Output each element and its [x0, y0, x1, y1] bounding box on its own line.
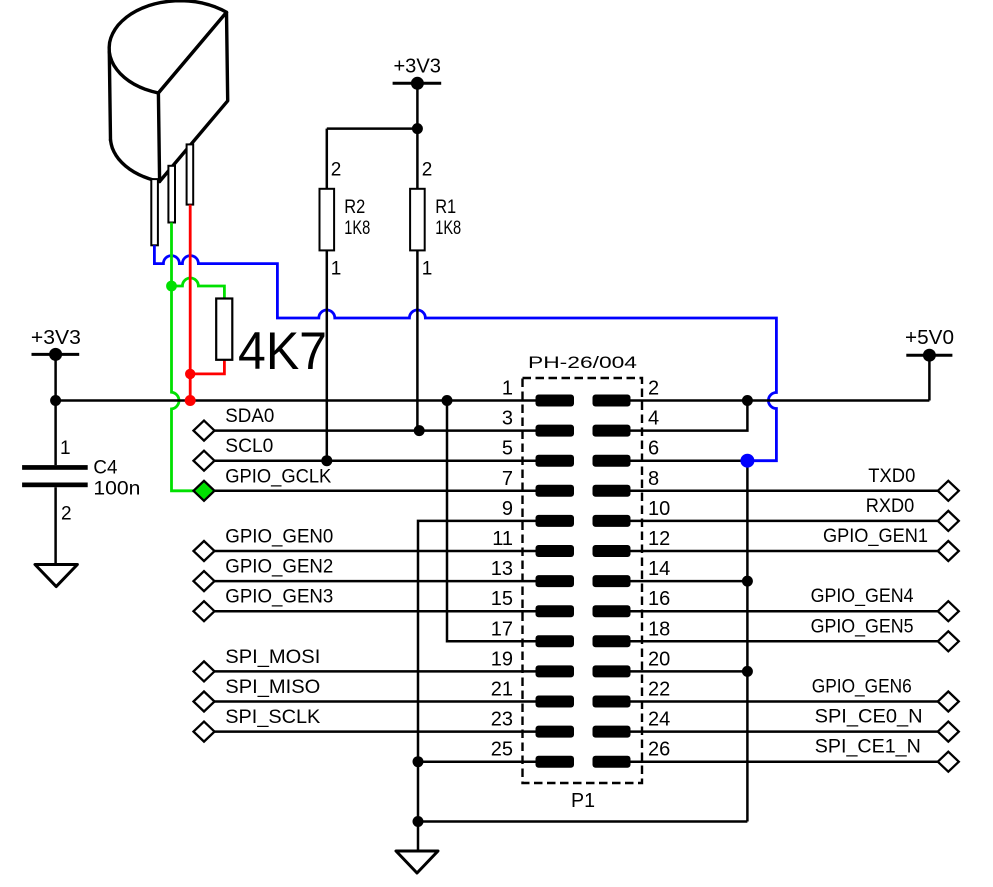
sensor leg 1 (left pin)	[151, 179, 158, 245]
wire SPI_MOSI net to connector pin 19	[215, 670, 536, 673]
wire GPIO_GEN3 net to connector pin 15	[215, 610, 536, 613]
svg-text:GPIO_GEN4: GPIO_GEN4	[811, 586, 914, 607]
node SPI_MISO (off-page diamond)	[194, 692, 215, 712]
wire connector pin 4 up to 5V net	[631, 401, 748, 431]
svg-text:1: 1	[422, 258, 433, 279]
connector pad pin 12	[593, 545, 631, 557]
svg-text:GPIO_GEN0: GPIO_GEN0	[225, 527, 333, 548]
svg-text:GPIO_GEN3: GPIO_GEN3	[225, 587, 333, 608]
power symbol +3V3 (left)	[32, 353, 80, 356]
svg-text:GPIO_GEN1: GPIO_GEN1	[823, 526, 928, 547]
junction red wire / 4K7 branch	[185, 369, 195, 379]
junction GND / pin 25	[413, 756, 424, 767]
connector pad pin 1	[536, 395, 575, 407]
svg-text:+3V3: +3V3	[31, 326, 81, 349]
svg-text:1: 1	[60, 438, 71, 459]
svg-text:25: 25	[491, 739, 513, 761]
node SCL0 (off-page diamond)	[194, 451, 215, 471]
svg-text:23: 23	[491, 709, 513, 731]
svg-text:16: 16	[648, 588, 670, 610]
svg-text:24: 24	[648, 709, 670, 731]
wire blue GND net (sensor pin1 to connector pin 6, hops over green/red/R2/R1/pin2 wires)	[154, 245, 776, 460]
svg-text:R2: R2	[344, 197, 365, 218]
svg-text:3: 3	[502, 408, 513, 430]
svg-text:2: 2	[331, 159, 342, 180]
node GPIO_GEN6 (off-page diamond)	[938, 692, 959, 712]
wire +3V3 left symbol down to C4 pin 1	[54, 354, 57, 465]
wire SCL0 net to connector pin 5	[215, 459, 536, 462]
node GPIO_GEN4 (off-page diamond)	[938, 601, 959, 621]
svg-text:P1: P1	[571, 789, 595, 812]
svg-text:GPIO_GEN5: GPIO_GEN5	[811, 616, 914, 637]
svg-text:1K8: 1K8	[435, 218, 461, 239]
connector pad pin 2	[593, 395, 631, 407]
connector pad pin 24	[593, 726, 631, 738]
svg-text:14: 14	[648, 558, 670, 580]
junction blue GND wire at pin 6	[740, 454, 754, 468]
svg-text:19: 19	[491, 648, 513, 670]
junction GND bottom / ground symbol	[413, 816, 424, 827]
wire connector pin 17 up to 3V3 rail	[447, 401, 536, 642]
connector pad pin 18	[593, 635, 631, 647]
svg-text:SPI_MISO: SPI_MISO	[225, 677, 320, 698]
svg-text:21: 21	[491, 679, 513, 701]
connector pad pin 7	[536, 485, 575, 497]
svg-text:10: 10	[648, 498, 670, 520]
wire +5V0 symbol stub	[928, 355, 931, 400]
node SPI_CE1_N (off-page diamond)	[938, 752, 959, 772]
connector P1 dashed outline	[523, 378, 643, 783]
wire connector pin 24 to SPI_CE0_N diamond	[631, 730, 938, 733]
connector pad pin 11	[536, 545, 575, 557]
wire 3V3 rail (main horizontal, +3V3 to connector pin 1)	[56, 399, 536, 402]
svg-text:R1: R1	[435, 197, 456, 218]
junction 3V3 rail / C4 branch	[50, 395, 61, 406]
svg-text:13: 13	[491, 558, 513, 580]
connector pad pin 23	[536, 726, 575, 738]
node SDA0 (off-page diamond)	[194, 421, 215, 441]
junction SCL0 / R2 pin 1	[321, 455, 332, 466]
wire GPIO_GCLK net to connector pin 7	[194, 490, 536, 493]
svg-text:26: 26	[648, 739, 670, 761]
svg-text:18: 18	[648, 618, 670, 640]
svg-text:GPIO_GEN6: GPIO_GEN6	[812, 677, 912, 698]
sensor U1 TO-92 package body	[109, 1, 228, 182]
wire connector pin 20 to GND	[631, 670, 748, 673]
power symbol +3V3 (top, above R1)	[393, 82, 442, 85]
node GPIO_GEN2 (off-page diamond)	[194, 571, 215, 591]
node GPIO_GEN3 (off-page diamond)	[194, 601, 215, 621]
wire +3V3 top symbol down to R1 pin 2	[416, 83, 419, 189]
svg-text:4: 4	[648, 408, 659, 430]
junction SDA0 / R1 pin 1	[414, 425, 425, 436]
wire red 3V3 net from sensor pin3 down to 3V3 rail	[189, 205, 192, 401]
node SPI_CE0_N (off-page diamond)	[938, 722, 959, 742]
svg-text:4K7: 4K7	[238, 322, 327, 381]
svg-text:8: 8	[648, 468, 659, 490]
node GPIO_GEN1 (off-page diamond)	[938, 541, 959, 561]
svg-text:PH-26/004: PH-26/004	[528, 354, 637, 372]
resistor R1 1K8 body	[410, 189, 425, 251]
wire GND vertical (right)	[746, 461, 749, 822]
svg-text:2: 2	[61, 503, 72, 524]
wire green branch to 4K7 resistor top (hop over red wire)	[172, 278, 225, 299]
connector pad pin 15	[536, 605, 575, 617]
svg-text:1K8: 1K8	[344, 218, 370, 239]
wire connector pin 18 to GPIO_GEN5 diamond	[631, 640, 938, 643]
wire SPI_MISO net to connector pin 21	[215, 700, 536, 703]
junction GND / pin 14	[742, 576, 753, 587]
connector pad pin 25	[536, 756, 575, 768]
wire connector pin 26 to SPI_CE1_N diamond	[631, 760, 938, 763]
svg-text:GPIO_GEN2: GPIO_GEN2	[225, 557, 333, 578]
wire connector pin 14 to GND	[631, 580, 748, 583]
connector pad pin 22	[593, 696, 631, 708]
sensor leg 3 (right pin)	[187, 144, 194, 204]
wire connector pin 16 to GPIO_GEN4 diamond	[631, 610, 938, 613]
connector pad pin 19	[536, 665, 575, 677]
svg-text:7: 7	[502, 468, 513, 490]
svg-text:SCL0: SCL0	[225, 436, 273, 457]
svg-text:1: 1	[502, 378, 513, 400]
svg-text:SPI_MOSI: SPI_MOSI	[225, 647, 320, 668]
wire R1 pin 1 down to SDA0 net	[416, 250, 419, 430]
svg-text:2: 2	[422, 159, 433, 180]
svg-text:22: 22	[648, 679, 670, 701]
node GPIO_GEN5 (off-page diamond)	[938, 631, 959, 651]
connector pad pin 13	[536, 575, 575, 587]
resistor R2 1K8 body	[320, 189, 335, 251]
node SPI_MOSI (off-page diamond)	[194, 661, 215, 681]
connector pad pin 16	[593, 605, 631, 617]
node GPIO_GCLK (off-page diamond)	[194, 481, 215, 501]
connector pad pin 20	[593, 665, 631, 677]
wire green DQ net (sensor pin2 down, hop over 3V3 rail, to GPIO_GCLK diamond)	[172, 223, 195, 491]
svg-text:SPI_CE0_N: SPI_CE0_N	[815, 707, 923, 728]
wire GPIO_GEN2 net to connector pin 13	[215, 580, 536, 583]
svg-text:20: 20	[648, 648, 670, 670]
node SPI_SCLK (off-page diamond)	[194, 722, 215, 742]
svg-text:6: 6	[648, 438, 659, 460]
wire SDA0 net to connector pin 3	[215, 429, 536, 432]
connector pad pin 6	[593, 455, 631, 467]
svg-text:1: 1	[331, 258, 342, 279]
wire connector pin 25 to GND vertical	[418, 760, 536, 763]
svg-text:5: 5	[502, 438, 513, 460]
wire connector pin 22 to GPIO_GEN6 diamond	[631, 700, 938, 703]
svg-text:2: 2	[648, 378, 659, 400]
connector pad pin 10	[593, 515, 631, 527]
svg-text:17: 17	[491, 618, 513, 640]
ground symbol (bottom, below connector)	[396, 851, 438, 873]
wire SPI_SCLK net to connector pin 23	[215, 730, 536, 733]
junction GND / pin 20	[742, 666, 753, 677]
wire GPIO_GEN0 net to connector pin 11	[215, 550, 536, 553]
svg-text:11: 11	[492, 528, 513, 550]
wire connector pin 9 to GND vertical (left)	[418, 521, 536, 822]
connector pad pin 14	[593, 575, 631, 587]
svg-text:100n: 100n	[93, 479, 140, 500]
svg-text:C4: C4	[93, 458, 117, 479]
svg-text:15: 15	[491, 588, 513, 610]
wire C4 pin 2 down to ground	[54, 487, 57, 564]
sensor leg 2 (middle pin)	[168, 166, 175, 223]
connector pad pin 5	[536, 455, 575, 467]
connector pad pin 4	[593, 425, 631, 437]
connector pad pin 17	[536, 635, 575, 647]
junction 5V net pins 2/4	[742, 395, 753, 406]
svg-text:+3V3: +3V3	[393, 54, 441, 77]
capacitor C4 plate 1	[22, 465, 88, 470]
connector pad pin 9	[536, 515, 575, 527]
svg-text:GPIO_GCLK: GPIO_GCLK	[225, 466, 331, 487]
node RXD0 (off-page diamond)	[938, 511, 959, 531]
wire red branch to 4K7 resistor bottom	[190, 360, 224, 374]
wire R2 pin2 branch from +3V3	[327, 127, 418, 130]
ground symbol (below C4)	[35, 565, 77, 587]
svg-text:12: 12	[648, 528, 670, 550]
svg-text:SPI_CE1_N: SPI_CE1_N	[815, 737, 921, 758]
svg-text:SDA0: SDA0	[225, 406, 274, 427]
junction red wire on 3V3 rail	[185, 395, 196, 406]
junction green wire / 4K7 branch	[166, 281, 177, 292]
wire GND bottom horizontal	[418, 820, 747, 823]
connector pad pin 8	[593, 485, 631, 497]
capacitor C4 plate 2	[22, 483, 88, 488]
connector pad pin 3	[536, 425, 575, 437]
svg-text:TXD0: TXD0	[868, 466, 915, 487]
connector pad pin 26	[593, 756, 631, 768]
node TXD0 (off-page diamond)	[938, 481, 959, 501]
wire connector pin 10 to RXD0 diamond	[631, 520, 938, 523]
node GPIO_GEN0 (off-page diamond)	[194, 541, 215, 561]
svg-text:SPI_SCLK: SPI_SCLK	[225, 707, 320, 728]
wire connector pin 8 to TXD0 diamond	[631, 490, 938, 493]
wire connector pin 6 to GND	[631, 459, 748, 462]
svg-text:9: 9	[502, 498, 513, 520]
resistor 4K7 body	[216, 299, 232, 360]
wire connector pin 12 to GPIO_GEN1 diamond	[631, 550, 938, 553]
wire stub to bottom ground symbol	[417, 822, 420, 852]
wire connector pin 2 to +5V0	[631, 399, 930, 402]
wire down to R2 pin 2	[326, 129, 329, 189]
junction 3V3 rail / pin17 branch	[442, 395, 453, 406]
svg-text:+5V0: +5V0	[905, 326, 954, 349]
wire R2 pin 1 down to SCL0 net	[326, 250, 329, 460]
svg-text:RXD0: RXD0	[866, 496, 915, 517]
power symbol +5V0 (right)	[906, 354, 952, 357]
junction R1/R2 tops at +3V3	[412, 123, 423, 134]
connector pad pin 21	[536, 696, 575, 708]
